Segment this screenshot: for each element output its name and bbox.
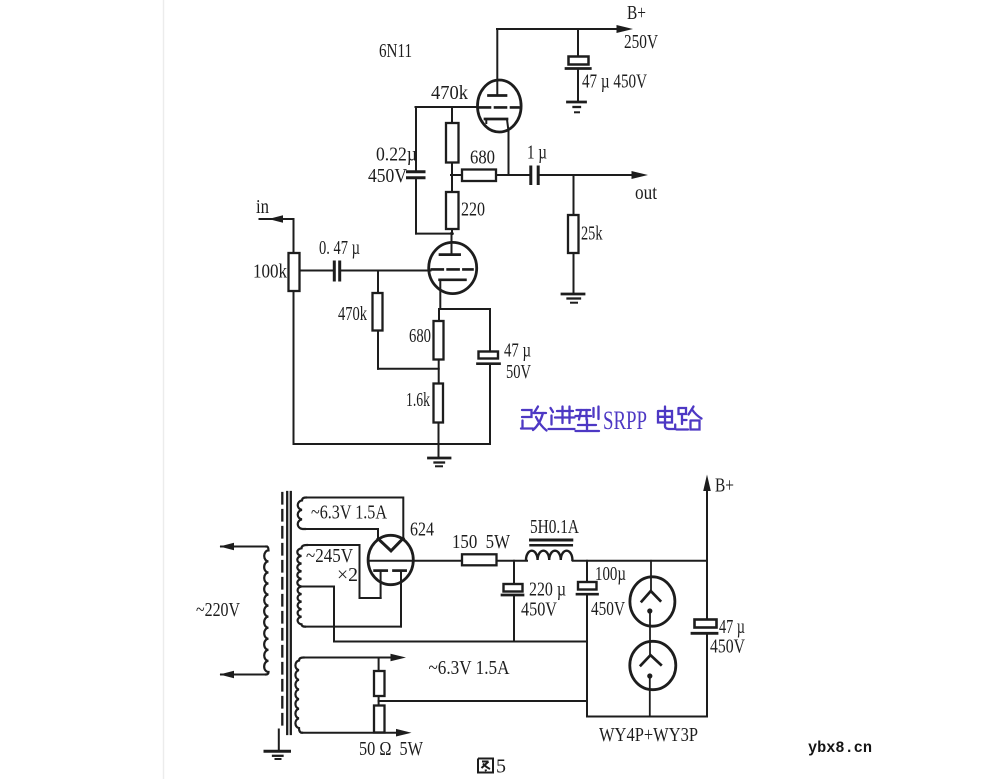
wire 100k to 0.47u <box>300 270 334 272</box>
wire heater tap line <box>379 700 587 702</box>
wire V1a cathode lead <box>507 120 509 176</box>
resistor 150 5W <box>462 554 497 565</box>
svg-text:47 µ 450V: 47 µ 450V <box>582 71 647 93</box>
svg-text:624: 624 <box>410 519 434 541</box>
svg-text:150 5W: 150 5W <box>452 531 510 553</box>
svg-text:47 µ: 47 µ <box>504 340 531 362</box>
svg-text:100k: 100k <box>253 261 287 283</box>
resistor 100k <box>289 253 300 291</box>
wire 220 bottom stub <box>451 229 453 234</box>
char xing <box>576 407 600 432</box>
wire 470k to cathode node <box>378 368 439 370</box>
wire B+ cap drop <box>577 29 579 57</box>
wire cathode node <box>440 308 490 310</box>
svg-text:50 Ω 5W: 50 Ω 5W <box>359 738 423 760</box>
arrow mains top <box>220 543 235 551</box>
svg-text:~6.3V 1.5A: ~6.3V 1.5A <box>311 502 387 524</box>
capacitor 100u 450V <box>577 582 598 594</box>
svg-text:ybx8.cn: ybx8.cn <box>808 739 872 757</box>
svg-text:1 µ: 1 µ <box>527 142 547 164</box>
svg-text:470k: 470k <box>431 82 468 104</box>
wire main B rail <box>368 560 462 562</box>
svg-text:450V: 450V <box>368 165 407 187</box>
wire 47u to bottom rail <box>706 634 708 717</box>
svg-text:~220V: ~220V <box>196 599 240 621</box>
svg-text:1.6k: 1.6k <box>406 389 430 411</box>
wire bottom rail <box>587 716 707 718</box>
svg-text:450V: 450V <box>591 598 625 620</box>
resistor 680 upper <box>462 170 496 182</box>
resistor 680 lower <box>434 321 444 360</box>
wire in to 100k <box>293 219 295 253</box>
wire heater bottom lead <box>304 529 378 539</box>
wire 6.3V bottom lead <box>302 732 398 734</box>
svg-text:in: in <box>256 196 269 218</box>
svg-text:100µ: 100µ <box>595 563 626 585</box>
arrow B+ lower <box>703 475 711 492</box>
transformer HV winding <box>297 545 307 627</box>
wire 680 to 1.6k <box>438 360 440 384</box>
wire 50R stub <box>378 658 380 672</box>
transformer heater winding top <box>298 498 306 530</box>
wire grid node down to cap <box>415 107 417 170</box>
wire mains bottom lead <box>221 674 265 676</box>
ground main <box>429 458 451 466</box>
wire 220u to bus <box>513 596 515 642</box>
svg-text:5H0.1A: 5H0.1A <box>530 516 579 538</box>
wire 47u50V bottom <box>489 365 491 445</box>
wire cap to ground <box>577 70 579 102</box>
char jin <box>549 407 575 430</box>
wire 1.6k to ground <box>438 423 440 459</box>
capacitor 47u 450V top <box>566 57 590 69</box>
wire 100u down rail <box>586 595 588 717</box>
wire return bus <box>334 641 587 643</box>
wire 220 top stub <box>451 175 453 192</box>
wire 470k top stub <box>451 107 453 123</box>
capacitor 47u 50V <box>478 352 500 364</box>
wire 470k lower down <box>377 331 379 369</box>
wire HV top lead <box>306 545 381 598</box>
svg-text:250V: 250V <box>624 31 658 53</box>
svg-text:×2: ×2 <box>337 564 358 586</box>
capacitor 1u <box>531 167 538 184</box>
transformer core bar A <box>286 492 288 734</box>
wire 0.22u to node <box>416 233 453 235</box>
svg-text:0.22µ: 0.22µ <box>376 144 417 166</box>
svg-text:~6.3V 1.5A: ~6.3V 1.5A <box>429 657 510 679</box>
transformer primary winding <box>264 547 268 675</box>
svg-text:680: 680 <box>470 147 495 169</box>
capacitor 47u 450V lower <box>692 620 717 634</box>
svg-text:470k: 470k <box>338 303 367 325</box>
char gai <box>521 407 547 431</box>
triode V1b <box>429 242 477 293</box>
wire 470k bottom stub <box>451 163 453 177</box>
resistor 1.6k <box>434 384 444 423</box>
arrow in <box>269 215 284 223</box>
arrow out <box>632 171 649 179</box>
svg-text:450V: 450V <box>521 599 557 621</box>
wire 0.47u to grid V1b <box>341 270 431 272</box>
wire grid V1a <box>416 106 478 108</box>
wire B+ rail <box>497 28 618 30</box>
resistor 50R upper <box>374 671 385 696</box>
wire HV bottom lead <box>304 626 401 628</box>
transformer core bar B <box>290 492 292 734</box>
transformer core dashed <box>281 493 283 730</box>
resistor 220 <box>446 192 459 229</box>
resistor 25k <box>568 215 579 253</box>
triode V1a <box>478 80 522 132</box>
wire cap to node <box>415 179 417 234</box>
wire 680 to 1u <box>496 174 530 176</box>
page edge line <box>163 0 165 779</box>
regulator WY3P <box>630 641 676 689</box>
ground under 47u450V <box>568 102 586 112</box>
wire 6.3V top lead <box>303 657 392 659</box>
svg-text:220: 220 <box>461 199 485 221</box>
svg-text:out: out <box>635 182 657 204</box>
resistor 470k upper <box>446 123 459 163</box>
svg-text:SRPP: SRPP <box>603 406 647 435</box>
wire 50R mid <box>378 696 380 706</box>
wire plate stub right <box>400 571 402 627</box>
regulator WY4P <box>630 577 675 626</box>
svg-text:50V: 50V <box>506 361 531 383</box>
svg-text:WY4P+WY3P: WY4P+WY3P <box>599 724 698 746</box>
wire 150 to choke <box>497 560 528 562</box>
wire 470k lower stub <box>377 271 379 294</box>
wire HV centre tap <box>302 587 335 642</box>
ground under 25k <box>562 294 584 303</box>
capacitor 0.47u <box>334 262 339 280</box>
wire regulator column <box>650 561 651 717</box>
capacitor 220u 450V <box>502 584 523 595</box>
svg-text:B+: B+ <box>627 2 646 24</box>
wire B+ riser <box>706 491 708 619</box>
wire bottom bus upper circuit <box>294 443 491 445</box>
resistor 470k lower <box>373 293 383 331</box>
capacitor 0.22u 450V <box>408 172 425 178</box>
wire 100k down to bus <box>293 291 295 444</box>
ground transformer <box>265 751 290 759</box>
transformer heater winding bottom <box>295 658 303 733</box>
char lu <box>677 407 702 430</box>
wire heater top lead <box>305 498 403 539</box>
wire anode V1a to B+ <box>496 29 498 96</box>
char tu of figure caption <box>478 759 493 773</box>
svg-text:6N11: 6N11 <box>379 40 412 62</box>
wire 47u50V top <box>489 309 491 352</box>
wire 25k to ground <box>573 253 575 294</box>
rectifier 624 <box>368 535 413 584</box>
wire in lead <box>260 218 294 220</box>
wire to 680 lower <box>438 309 440 321</box>
wire core to ground <box>278 730 280 751</box>
wire mains top lead <box>221 546 267 548</box>
arrow B+ <box>617 25 634 33</box>
arrow mains bottom <box>220 671 235 679</box>
wire 25k top <box>573 175 575 215</box>
wire out <box>540 174 634 176</box>
wire cathode V1b lead <box>439 280 441 309</box>
resistor 50R lower <box>374 706 385 733</box>
wire 220u drop <box>513 561 515 584</box>
svg-text:B+: B+ <box>715 475 734 497</box>
svg-text:5: 5 <box>496 756 506 778</box>
char dian <box>658 407 675 430</box>
wire node to 680 <box>451 174 463 176</box>
svg-text:0. 47 µ: 0. 47 µ <box>319 237 360 259</box>
svg-text:680: 680 <box>409 325 431 347</box>
wire anode V1b <box>451 233 453 255</box>
wire 100u drop <box>586 561 588 582</box>
arrow 6.3V top <box>391 654 407 662</box>
title SRPP circuit (blue) <box>521 407 702 432</box>
svg-text:450V: 450V <box>710 636 745 658</box>
arrow 6.3V bottom <box>396 729 412 737</box>
wire choke to B+ <box>573 560 707 562</box>
choke 5H0.1A <box>526 540 572 560</box>
wire plate stub left <box>380 571 382 598</box>
svg-text:25k: 25k <box>581 223 603 245</box>
svg-text:220 µ: 220 µ <box>529 579 566 601</box>
